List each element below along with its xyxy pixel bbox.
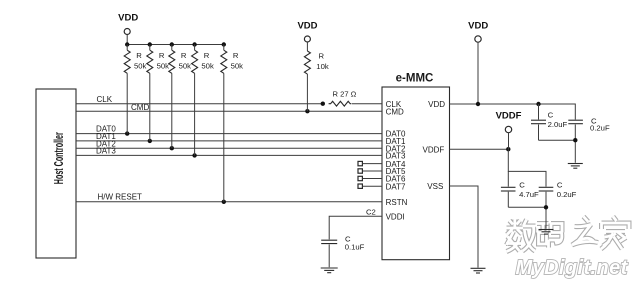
node VDDF <box>506 147 510 151</box>
node CMD pull-up <box>305 109 309 113</box>
node bus R4 <box>192 42 196 46</box>
svg-text:50k: 50k <box>231 62 244 71</box>
resistor R27 (series CLK) <box>329 101 352 106</box>
svg-text:VDD: VDD <box>468 21 488 32</box>
svg-text:e-MMC: e-MMC <box>396 73 434 85</box>
svg-text:C: C <box>519 181 525 190</box>
wire VDD caps bottom rail <box>539 140 576 163</box>
wire DAT3 <box>76 154 382 156</box>
stub DAT4 <box>358 161 382 165</box>
node VDD drop <box>476 102 480 106</box>
resistor R3 50k (DAT2) <box>169 45 191 149</box>
svg-text:DAT3: DAT3 <box>96 147 116 156</box>
stub DAT5 <box>358 169 382 173</box>
svg-text:R: R <box>233 51 239 60</box>
wire VDDF net <box>450 148 509 150</box>
resistor R4 50k (DAT3) <box>192 45 214 156</box>
e-MMC box <box>382 87 450 260</box>
node bus R5 <box>222 42 226 46</box>
svg-text:Host Controller: Host Controller <box>53 132 67 184</box>
node bus R3 <box>170 42 174 46</box>
svg-text:CMD: CMD <box>131 103 149 112</box>
svg-text:50k: 50k <box>179 62 192 71</box>
wire DAT0 <box>76 133 382 135</box>
node bus R2 <box>148 42 152 46</box>
node VDDF caps gnd <box>544 205 548 209</box>
svg-text:0.2uF: 0.2uF <box>557 190 577 199</box>
wire VDDF drop <box>508 149 546 186</box>
svg-text:VDDF: VDDF <box>423 145 445 154</box>
ground (C2) <box>321 268 338 273</box>
capacitor C2 0.1uF <box>321 235 364 268</box>
wire pull-up bus <box>127 44 224 46</box>
svg-text:R: R <box>181 51 187 60</box>
svg-text:H/W RESET: H/W RESET <box>98 192 143 201</box>
svg-text:VDD: VDD <box>118 12 138 23</box>
svg-text:CMD: CMD <box>386 107 404 116</box>
wire CMD <box>76 110 382 112</box>
node CLK-R27 <box>321 102 325 106</box>
stub DAT7 <box>358 184 382 188</box>
svg-text:50k: 50k <box>134 62 147 71</box>
capacitor C 0.2uF (VDD) <box>568 117 610 141</box>
svg-text:VDD: VDD <box>297 20 317 31</box>
svg-text:C: C <box>548 110 554 119</box>
capacitor C 4.7uF <box>501 171 539 207</box>
node cap 2.0uF <box>536 102 540 106</box>
svg-text:R: R <box>136 51 142 60</box>
ground (VDD caps) <box>568 164 583 169</box>
svg-text:10k: 10k <box>316 62 329 71</box>
node bus R1 <box>125 42 129 46</box>
host controller box <box>36 89 76 258</box>
wire VDD rail (right) <box>450 104 576 120</box>
svg-text:R: R <box>159 51 165 60</box>
watermark chinese characters (hollow outline) <box>506 217 629 252</box>
stub DAT6 <box>358 176 382 180</box>
resistor R6 10k (CMD) <box>304 51 328 111</box>
svg-text:VDD: VDD <box>428 100 445 109</box>
svg-text:R 27 Ω: R 27 Ω <box>333 89 357 98</box>
svg-text:VDDI: VDDI <box>386 212 405 221</box>
svg-text:0.1uF: 0.1uF <box>345 242 365 251</box>
wire VDDF caps bottom rail <box>508 207 546 229</box>
node VDD caps gnd <box>573 138 577 142</box>
svg-text:VSS: VSS <box>427 182 443 191</box>
wire VDDI <box>329 216 382 239</box>
svg-text:C: C <box>557 181 563 190</box>
ground (VSS) <box>471 268 486 273</box>
node DAT3 pull-up <box>192 153 196 157</box>
node DAT2 pull-up <box>170 146 174 150</box>
svg-text:DAT7: DAT7 <box>386 182 406 191</box>
svg-text:2.0uF: 2.0uF <box>548 120 568 129</box>
svg-text:50k: 50k <box>157 62 170 71</box>
capacitor C 0.2uF (VDDF) <box>539 181 577 208</box>
resistor R1 50k (DAT0) <box>124 45 146 134</box>
wire VSS <box>450 186 479 268</box>
svg-text:VDDF: VDDF <box>496 110 522 121</box>
svg-text:50k: 50k <box>201 62 214 71</box>
svg-text:MyDigit.net: MyDigit.net <box>516 257 629 279</box>
capacitor C 2.0uF <box>531 104 568 140</box>
ground (VDDF caps) <box>539 230 554 235</box>
svg-text:CLK: CLK <box>97 95 113 104</box>
svg-text:R: R <box>204 51 210 60</box>
svg-text:RSTN: RSTN <box>386 198 408 207</box>
svg-text:0.2uF: 0.2uF <box>590 124 610 133</box>
node DAT0 pull-up <box>125 131 129 135</box>
wire H/W RESET <box>76 201 382 203</box>
wire DAT1 <box>76 140 382 142</box>
node RESET pull-up <box>222 200 226 204</box>
node DAT1 pull-up <box>148 139 152 143</box>
resistor R5 50k (H/W RESET) <box>221 45 243 202</box>
svg-text:R: R <box>319 51 325 60</box>
wire DAT2 <box>76 147 382 149</box>
wire CLK <box>76 103 323 105</box>
svg-text:C2: C2 <box>366 207 376 216</box>
resistor R2 50k (DAT1) <box>147 45 169 141</box>
svg-text:4.7uF: 4.7uF <box>519 190 539 199</box>
